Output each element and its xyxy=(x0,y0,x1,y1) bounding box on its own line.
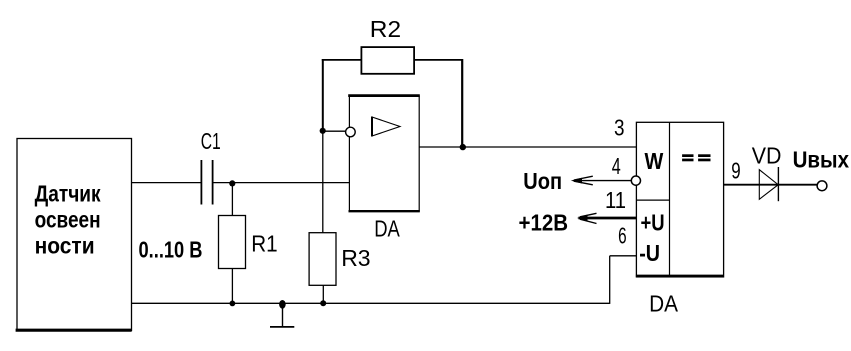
svg-text:W: W xyxy=(645,148,664,174)
svg-text:R1: R1 xyxy=(251,230,277,256)
svg-text:4: 4 xyxy=(612,153,621,179)
svg-text:11: 11 xyxy=(605,187,626,213)
svg-text:R2: R2 xyxy=(370,16,401,42)
svg-text:C1: C1 xyxy=(201,128,221,154)
svg-text:DA: DA xyxy=(374,215,400,241)
svg-text:ности: ности xyxy=(35,233,95,259)
svg-text:0...10 В: 0...10 В xyxy=(139,237,203,263)
svg-text:VD: VD xyxy=(752,142,782,168)
svg-text:DA: DA xyxy=(649,290,678,316)
svg-text:R3: R3 xyxy=(341,245,370,271)
svg-text:3: 3 xyxy=(614,115,625,141)
svg-text:9: 9 xyxy=(731,158,740,184)
svg-text:освеен: освеен xyxy=(35,207,101,233)
svg-text:6: 6 xyxy=(618,223,627,249)
svg-text:Uоп: Uоп xyxy=(523,168,562,194)
svg-text:Uвых: Uвых xyxy=(793,146,850,172)
svg-text:-U: -U xyxy=(639,240,660,266)
svg-text:Датчик: Датчик xyxy=(35,181,101,207)
svg-text:+12В: +12В xyxy=(519,209,569,235)
svg-text:+U: +U xyxy=(641,210,665,236)
